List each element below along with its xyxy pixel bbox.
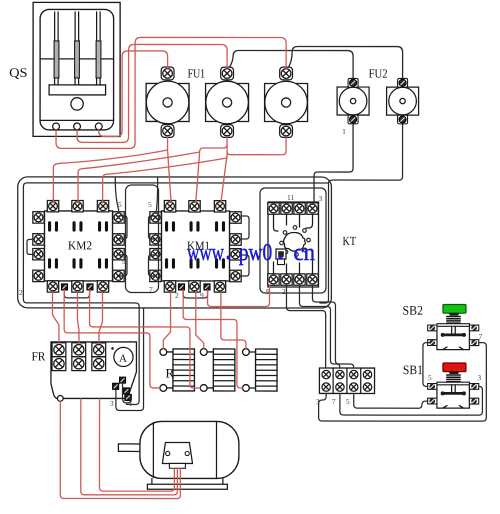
QS bottom contact 2 [74,123,81,130]
svg-text:3: 3 [319,194,323,203]
motor base [147,478,227,489]
contactor KM2 [33,200,124,292]
motor shaft [118,444,140,452]
wire KT b4 to XT col3 [312,286,353,369]
svg-text:FR: FR [31,349,46,363]
mounting panel outline (outer) [18,177,332,308]
FR aux terminal 98 [123,388,129,394]
wire FU1-3 junction to KM2 t3 and KM1 t3 (red) [103,137,286,203]
SB1 arm lower-right [469,398,478,404]
svg-text:7: 7 [123,236,127,245]
KT internal wires top [274,215,313,232]
wire hook KM2 right 3-4 [119,255,127,276]
motor terminal box [162,442,192,468]
svg-text:KM2: KM2 [68,238,92,252]
SB2 contact bar [442,334,465,337]
wire panel to FR aux U-loop [116,308,144,411]
wire KT b2 to XT col1 [286,286,325,369]
wire FR out3 to motor (red) [99,399,174,491]
wire KM1 aux2 to KT b1 (red) [208,285,270,306]
wire riser KM2 right t1 [115,177,118,210]
wire QS2 to FU1-2 (red) [77,44,227,142]
wire FU2-1 to KT [314,124,353,203]
svg-text:11: 11 [287,193,294,202]
SB2 cap (green) [443,305,466,314]
svg-text:7: 7 [332,397,336,406]
wire KM2 b1 to FR (red) [52,292,59,342]
wire KM1 b3 to R3 top (red) [221,292,246,348]
watermark [187,240,315,266]
KT coil block [276,249,286,265]
svg-text:SB2: SB2 [402,303,423,318]
SB1 spring [447,375,460,382]
wire QS3 to FU1-1 (red) [99,51,168,137]
svg-text:3: 3 [110,399,114,408]
resistor R1 [160,349,195,392]
SB1 cap neck [448,372,459,374]
FR aux terminal 96 [125,394,131,400]
wire KM1 b2 to R2 top (red) [196,292,204,348]
svg-text:9: 9 [122,257,126,266]
svg-text:2: 2 [175,291,179,300]
QS handle bar [49,85,106,95]
svg-text:5: 5 [428,373,432,382]
wire KM2 b2 to FR (red) [77,292,79,342]
SB2 arm upper-right [469,325,478,331]
wire KT b3 to XT col2 [299,286,340,369]
motor body [140,421,239,478]
wire FU1-1 to KM2 t1 and KM1 t1 (red) [53,137,171,203]
SB1 contact bar [442,392,465,395]
QS handle knob [71,98,83,110]
resistor R3 [243,349,278,392]
wire hook KM2 right 1-2 [119,216,127,239]
wire FU2-2 to panel ring to FR aux [23,124,402,405]
svg-text:www: www [187,240,224,266]
motor end lines [153,422,216,479]
svg-text:5: 5 [346,397,350,406]
pushbutton SB2 [428,304,479,349]
wire hook KM1 left 1-2 [149,216,156,239]
svg-text:1: 1 [342,127,346,136]
wire FU1-3 to FU2-2 [289,47,403,79]
svg-text:cn: cn [293,240,315,266]
wire hook KM1 right 3-4 [242,255,249,276]
svg-text:5: 5 [148,200,152,209]
wire KM1 aux bottom hook [183,290,207,298]
wire FU1-2 to KM2 t2 and KM1 t2 (red) [78,137,227,203]
resistor R2 [200,349,235,392]
SB2 body frame [437,326,470,349]
SB2 plate [437,324,470,327]
wire KM2 aux1 to R1 bottom (red) [64,290,160,388]
wire XT col3 to SB1 lower-left [354,393,428,408]
FR aux terminal 97 [113,383,119,389]
QS blade 2 [75,12,80,85]
wire FR out2 to motor (red) [81,399,178,495]
svg-text:SB1: SB1 [403,362,423,377]
wire FU1-2 to FU2-1 [230,50,354,78]
svg-text:FU1: FU1 [188,66,206,80]
svg-text:pw0: pw0 [239,240,273,266]
svg-text:QS: QS [9,65,28,80]
SB1 arm upper-right [469,384,478,390]
svg-text:9: 9 [200,291,204,300]
SB2 stem [452,326,456,333]
svg-text:R: R [165,365,174,380]
svg-text:2: 2 [282,287,286,296]
fuse FU2-2 [387,78,419,123]
knife switch QS enclosure [33,2,120,136]
wire loop between KM2 and KM1 [125,185,158,293]
SB2 arm upper-left [428,325,437,331]
SB1 arm lower-left [428,398,437,404]
fuse FU1-2 [206,67,249,137]
KT cam wheel [284,232,306,251]
fuse FU1-3 [265,67,308,137]
wire FR aux inner hook [123,384,132,403]
wire hook KM1 left 3-4 [148,255,155,276]
svg-text:7: 7 [149,285,153,294]
QS bottom contact 1 [53,123,60,130]
svg-text:7: 7 [478,332,482,341]
wire riser KM1 left t1 [156,177,157,210]
thermal relay FR body [51,342,137,399]
svg-text:FU2: FU2 [369,67,388,81]
fuse FU1-1 [146,67,189,137]
wire KM2 b3 to FR (red) [99,292,103,342]
time relay KT body [268,202,319,287]
terminal block XT [319,368,374,393]
svg-text:A: A [119,353,127,365]
KT bottom terminals [268,274,318,285]
SB2 arm lower-right [469,340,478,346]
wire XT col2 to SB1 upper-right [340,386,483,415]
wire KM1 aux1 to R3 bottom (red) [183,290,242,388]
KT top terminals [268,203,318,214]
SB1 feet [443,406,464,409]
SB1 plate [437,382,470,385]
FR foot contact [57,395,63,401]
SB1 cap (red) [443,363,466,372]
time relay KT base [260,188,326,293]
wire XT col1 to SB2 lower-right [319,343,487,422]
KT cam dots [280,226,311,257]
svg-text:5: 5 [118,200,122,209]
fuse FU2-1 [337,78,369,123]
wire KM1 b1 to R1 top (red) [163,292,170,348]
SB1 arm upper-left [428,383,437,389]
svg-text:3: 3 [477,373,481,382]
svg-text:KT: KT [343,234,357,248]
svg-text:2: 2 [19,288,23,297]
SB2 cap neck [448,313,459,315]
wire hook KM2 left 2-3 [27,239,33,254]
QS blade 3 [96,12,101,85]
QS blade 1 [54,12,59,85]
SB2 spring [447,317,460,324]
KT internal wires bottom [273,258,312,274]
SB2 arm lower-left [428,340,437,346]
wire KM2 aux2 to R2 bottom (red) [90,290,201,388]
contactor KM1 [150,201,241,293]
QS bottom contact 3 [95,123,102,130]
SB2 feet [443,347,464,350]
SB1 body frame [437,385,470,408]
wire SB2 lower-left to SB1 upper-left [423,343,430,387]
wire QS1 to FU1-3 (red) [56,37,286,148]
SB1 stem [452,385,456,392]
FR terminal grid [52,343,106,371]
wire hook KM1 right 1-2 [242,216,249,239]
FR aux terminal 95 [119,377,125,383]
FR dial A [114,347,133,366]
wire KM2 aux bottom hook [64,290,89,298]
pushbutton SB1 [428,363,479,408]
wire FR out1 to motor (red) [60,401,180,498]
wire panel ring right segment [320,183,329,303]
